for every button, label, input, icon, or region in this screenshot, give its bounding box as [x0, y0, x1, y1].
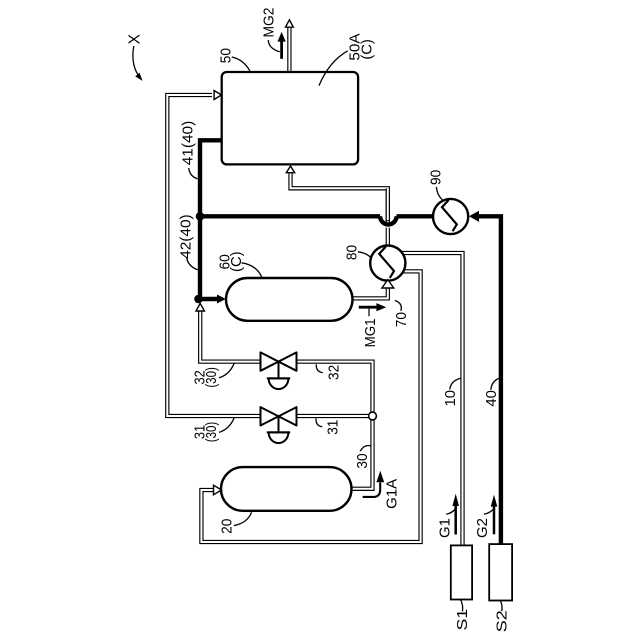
svg-text:30: 30 [354, 453, 371, 468]
valve 32 [261, 352, 297, 389]
svg-text:70: 70 [393, 312, 410, 327]
wire pipe over crossover [386, 188, 390, 221]
wire pipe 10 from exchanger 80 to source S1 [398, 253, 463, 547]
wire pipe 32 left segment and riser to junction [200, 311, 260, 362]
wire 41 thick line junction to reactor 50 [200, 140, 222, 299]
svg-text:(C): (C) [228, 251, 245, 272]
tank 20 [221, 467, 352, 511]
leader 31 right [316, 418, 322, 427]
svg-text:41(40): 41(40) [180, 121, 197, 166]
svg-text:MG2: MG2 [261, 8, 278, 38]
node junction dot 41/42 [196, 212, 205, 221]
wire thick line exchanger 90 to corner [397, 214, 453, 218]
leader S2 [500, 600, 502, 611]
node junction dot 42/60 [194, 295, 203, 304]
svg-text:32: 32 [326, 365, 343, 380]
leader 70 [395, 300, 402, 311]
wire pipe 30 from tank 20 to node [352, 416, 373, 489]
arrowhead into reactor 50 bottom [286, 166, 294, 173]
leader 42(40) [187, 258, 198, 270]
wire crossover hop of thick line under pipe [380, 216, 396, 224]
arrow G2 flow [491, 495, 498, 535]
wire 40 thick line from source S2 [479, 216, 501, 546]
leader 80 [358, 252, 371, 258]
wire pipe G1A loop exchanger 80 to tank 20 [201, 271, 420, 542]
heat exchanger 90 [433, 199, 468, 234]
wire pipe 70 from tank 60 to exchanger 80 [352, 289, 388, 299]
wire pipe into reactor 50 left / pipe 31 riser [167, 95, 260, 416]
svg-text:G1: G1 [437, 518, 454, 538]
svg-text:10: 10 [442, 390, 459, 407]
wire pipe 31 right segment [297, 414, 373, 418]
svg-text:G2: G2 [474, 518, 491, 538]
wire 42 thick line junction to exchanger 90 [200, 214, 380, 218]
leader 50 [232, 57, 250, 71]
svg-text:42(40): 42(40) [177, 214, 194, 259]
source S2 box [489, 544, 512, 600]
leader S1 [461, 600, 463, 612]
svg-text:MG1: MG1 [362, 318, 379, 347]
arrowhead into tank 20 left [214, 485, 222, 495]
arrow G1 flow [452, 494, 459, 535]
wire pipe white cores [167, 28, 462, 547]
leader 30 [360, 445, 371, 451]
arrow MG2 flow [278, 32, 286, 59]
svg-text:S2: S2 [494, 610, 511, 632]
source S1 box [451, 545, 472, 599]
node open circle junction 30/31/32 [369, 412, 377, 420]
svg-text:40: 40 [483, 390, 500, 407]
svg-text:31: 31 [325, 420, 342, 435]
leader G2 [484, 509, 494, 515]
wire pipe 32 right segment and drop to node [297, 362, 373, 416]
arrowhead MG2 outlet pipe [286, 20, 294, 27]
arrowhead into reactor 50 left [214, 91, 221, 100]
tank 60 [226, 278, 353, 321]
wire pipe from exchanger 80 top to reactor 50 bottom [291, 173, 388, 224]
svg-text:X: X [127, 33, 144, 44]
arrow MG1 flow [359, 303, 386, 316]
leader 50A [319, 51, 348, 86]
leader 90 [436, 187, 442, 200]
leader G1 [446, 509, 455, 515]
svg-text:G1A: G1A [384, 479, 401, 509]
arrowhead into exchanger 90 [469, 211, 479, 222]
svg-text:S1: S1 [454, 609, 471, 631]
svg-text:(30): (30) [203, 422, 220, 443]
wire thick arrow into tank 60 [199, 297, 218, 301]
heat exchanger 80 [370, 246, 405, 281]
leader 32(30) [219, 363, 234, 378]
leader 41(40) [189, 168, 198, 179]
leader 31(30) [219, 418, 234, 433]
valve 31 [261, 407, 297, 443]
reactor 50 [222, 72, 358, 164]
svg-text:(30): (30) [203, 367, 220, 388]
svg-text:50: 50 [218, 48, 235, 63]
svg-text:20: 20 [218, 519, 235, 534]
wire MG2 outlet pipe above reactor 50 [287, 28, 291, 73]
leader 40 [491, 378, 499, 390]
leader 60 [242, 263, 262, 277]
svg-text:80: 80 [343, 245, 360, 260]
arrowhead into exchanger 80 bottom [382, 280, 394, 288]
arrow G1A flow [363, 471, 385, 497]
svg-text:90: 90 [428, 170, 445, 185]
leader MG2 [268, 40, 280, 52]
arrow X overall system [133, 46, 143, 81]
wire pipe segment below crossover into exchanger 80 [386, 228, 390, 248]
leader 10 [450, 378, 461, 389]
arrowhead into junction from pipe 32 [196, 303, 204, 311]
leader 20 [234, 512, 252, 525]
leader 32 right [316, 364, 323, 372]
svg-text:(C): (C) [359, 39, 376, 60]
